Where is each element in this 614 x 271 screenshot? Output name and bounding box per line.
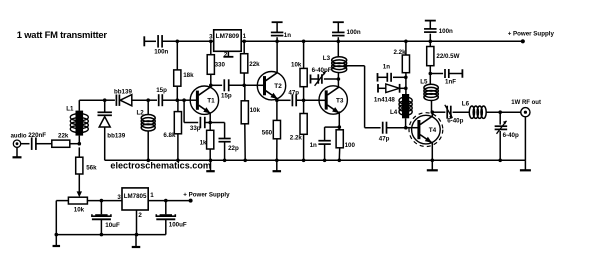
svg-text:10uF: 10uF xyxy=(105,222,120,229)
svg-text:10k: 10k xyxy=(74,206,85,213)
svg-text:+ Power Supply: + Power Supply xyxy=(508,30,555,37)
svg-text:100n: 100n xyxy=(439,28,453,35)
svg-text:1W RF out: 1W RF out xyxy=(511,100,541,106)
svg-text:33p: 33p xyxy=(190,125,201,132)
svg-text:L4: L4 xyxy=(390,109,398,116)
svg-text:15p: 15p xyxy=(221,92,232,99)
svg-text:2: 2 xyxy=(138,212,142,219)
svg-text:100n: 100n xyxy=(154,49,168,56)
svg-text:1n4148: 1n4148 xyxy=(374,96,396,103)
svg-text:audio: audio xyxy=(11,133,27,139)
svg-text:100n: 100n xyxy=(347,29,361,36)
svg-text:1: 1 xyxy=(150,192,154,199)
svg-text:15p: 15p xyxy=(156,87,167,94)
svg-text:bb139: bb139 xyxy=(107,132,125,139)
svg-text:T2: T2 xyxy=(274,83,282,90)
svg-text:T4: T4 xyxy=(429,127,437,134)
svg-text:1n: 1n xyxy=(383,63,390,70)
svg-text:L1: L1 xyxy=(66,105,74,112)
svg-text:LM7805: LM7805 xyxy=(124,193,147,200)
svg-text:1: 1 xyxy=(243,33,247,40)
svg-text:100uF: 100uF xyxy=(169,222,187,229)
svg-text:3: 3 xyxy=(209,34,213,41)
svg-text:18k: 18k xyxy=(183,72,194,79)
svg-text:47p: 47p xyxy=(288,90,299,97)
svg-text:100: 100 xyxy=(345,142,356,149)
svg-text:6-40p: 6-40p xyxy=(447,118,463,125)
svg-text:electroschematics.com: electroschematics.com xyxy=(110,161,211,171)
svg-text:22/0.5W: 22/0.5W xyxy=(436,53,459,60)
svg-text:1n: 1n xyxy=(284,32,291,39)
svg-text:6.8k: 6.8k xyxy=(163,132,176,139)
svg-text:220nF: 220nF xyxy=(28,132,46,139)
svg-text:1n: 1n xyxy=(310,142,317,149)
svg-text:330: 330 xyxy=(215,61,226,68)
svg-text:1k: 1k xyxy=(200,140,207,147)
svg-text:+ Power Supply: + Power Supply xyxy=(183,191,230,198)
svg-text:L2: L2 xyxy=(137,110,145,117)
svg-text:1 watt FM transmitter: 1 watt FM transmitter xyxy=(17,29,108,40)
svg-text:1nF: 1nF xyxy=(445,79,456,86)
svg-text:10k: 10k xyxy=(250,107,261,114)
svg-text:3: 3 xyxy=(117,194,121,201)
svg-text:2.2k: 2.2k xyxy=(290,135,303,142)
svg-text:47p: 47p xyxy=(379,135,390,142)
svg-text:22k: 22k xyxy=(58,133,69,140)
svg-text:L6: L6 xyxy=(462,101,470,108)
svg-text:56k: 56k xyxy=(86,164,97,171)
svg-text:6-40p: 6-40p xyxy=(503,132,519,139)
svg-text:T1: T1 xyxy=(207,98,215,105)
svg-text:L5: L5 xyxy=(420,79,428,86)
svg-text:22p: 22p xyxy=(228,145,239,152)
svg-text:T3: T3 xyxy=(336,98,344,105)
svg-text:L3: L3 xyxy=(323,55,331,62)
svg-text:10k: 10k xyxy=(291,61,302,68)
svg-text:2.2k: 2.2k xyxy=(394,49,407,56)
svg-text:LM7809: LM7809 xyxy=(216,33,240,40)
svg-text:bb139: bb139 xyxy=(114,88,132,95)
svg-text:6-40pF: 6-40pF xyxy=(312,67,332,74)
svg-text:560: 560 xyxy=(262,130,273,137)
svg-text:22k: 22k xyxy=(249,61,260,68)
